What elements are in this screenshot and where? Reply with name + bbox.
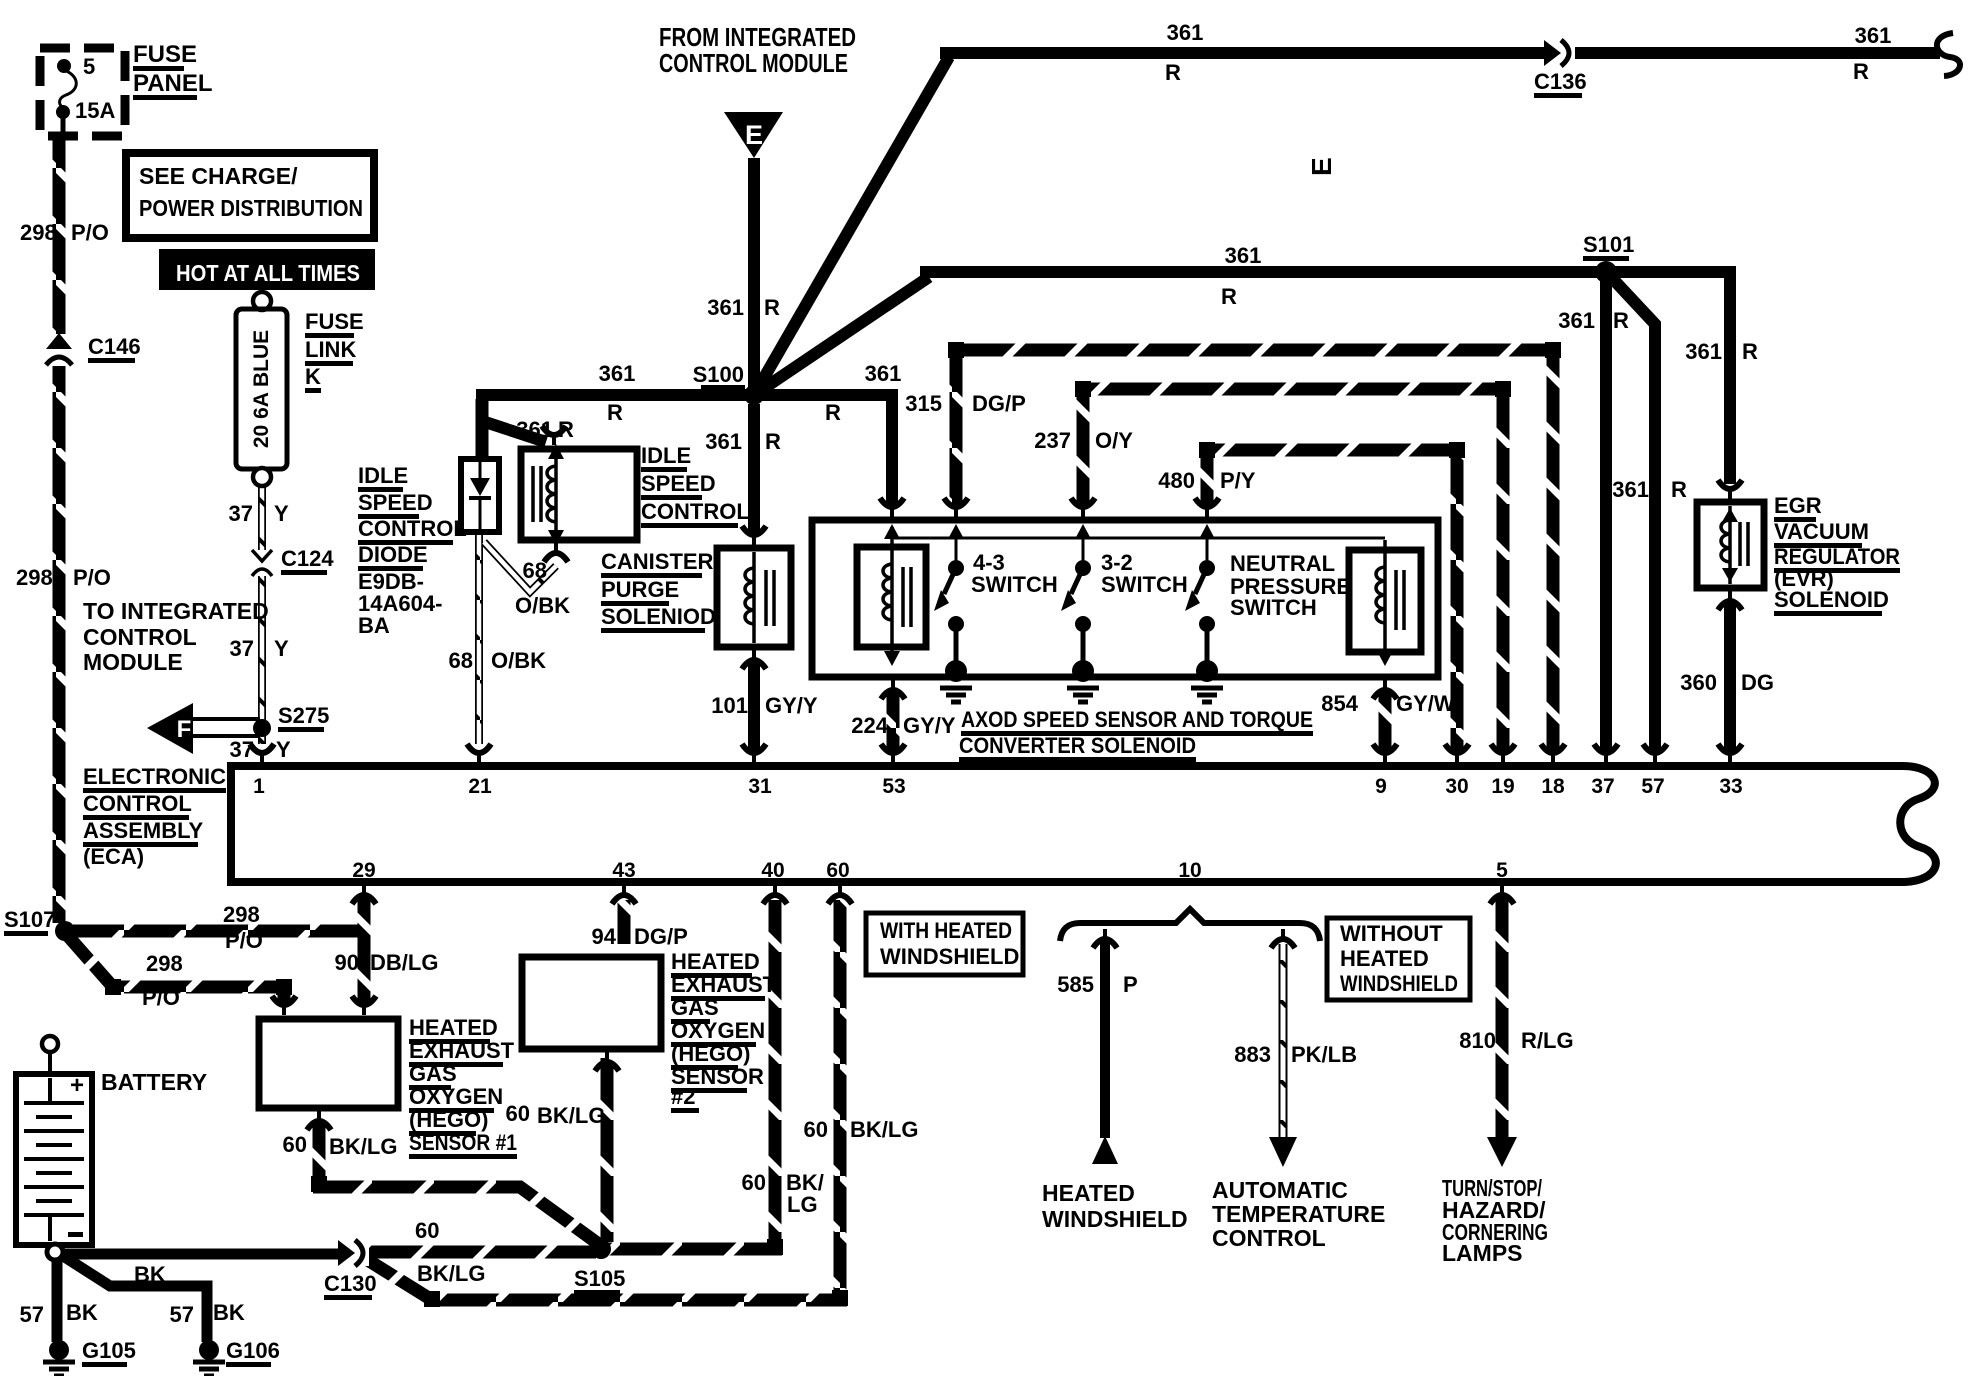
svg-text:PANEL: PANEL — [133, 70, 213, 97]
svg-text:R: R — [1613, 308, 1629, 333]
svg-text:R: R — [1165, 60, 1181, 85]
svg-text:S101: S101 — [1583, 232, 1634, 257]
svg-text:SEE CHARGE/: SEE CHARGE/ — [139, 163, 298, 189]
svg-text:9: 9 — [1375, 775, 1387, 798]
svg-text:19: 19 — [1491, 775, 1514, 798]
svg-text:90: 90 — [335, 950, 359, 975]
svg-text:ASSEMBLY: ASSEMBLY — [83, 818, 204, 843]
svg-text:CONTROL MODULE: CONTROL MODULE — [659, 48, 848, 78]
svg-text:P/O: P/O — [71, 220, 109, 245]
svg-text:21: 21 — [468, 775, 492, 798]
svg-text:G105: G105 — [82, 1338, 136, 1363]
svg-text:AXOD SPEED SENSOR AND TORQUE: AXOD SPEED SENSOR AND TORQUE — [961, 707, 1313, 732]
svg-text:R/LG: R/LG — [1521, 1028, 1574, 1053]
svg-text:224: 224 — [851, 713, 888, 738]
svg-text:FUSE: FUSE — [133, 41, 197, 68]
svg-text:(ECA): (ECA) — [83, 844, 144, 869]
svg-text:WITH HEATED: WITH HEATED — [880, 918, 1012, 943]
svg-text:237: 237 — [1034, 428, 1071, 453]
svg-text:101: 101 — [711, 693, 748, 718]
svg-text:MODULE: MODULE — [83, 649, 183, 675]
svg-text:BK/LG: BK/LG — [537, 1103, 605, 1128]
svg-text:SWITCH: SWITCH — [971, 572, 1058, 597]
svg-text:GAS: GAS — [409, 1061, 457, 1086]
svg-text:5: 5 — [83, 54, 95, 79]
svg-text:57: 57 — [170, 1302, 194, 1327]
svg-text:P/O: P/O — [225, 928, 263, 953]
svg-text:S105: S105 — [574, 1266, 625, 1291]
svg-text:GY/W: GY/W — [1396, 691, 1455, 716]
svg-text:EXHAUST: EXHAUST — [671, 972, 777, 997]
svg-text:R: R — [1671, 477, 1687, 502]
svg-text:IDLE: IDLE — [358, 463, 408, 488]
svg-text:HOT AT ALL TIMES: HOT AT ALL TIMES — [176, 260, 360, 286]
svg-text:37: 37 — [230, 737, 254, 762]
svg-text:Y: Y — [274, 501, 289, 526]
svg-text:VACUUM: VACUUM — [1774, 519, 1869, 544]
svg-text:BK/LG: BK/LG — [417, 1261, 485, 1286]
svg-text:IDLE: IDLE — [641, 443, 691, 468]
svg-text:R: R — [1221, 284, 1237, 309]
svg-text:585: 585 — [1057, 972, 1094, 997]
svg-text:R: R — [1853, 59, 1869, 84]
svg-text:10: 10 — [1178, 859, 1201, 882]
svg-text:TEMPERATURE: TEMPERATURE — [1212, 1201, 1385, 1227]
svg-text:57: 57 — [1641, 775, 1664, 798]
svg-text:298: 298 — [223, 902, 260, 927]
svg-text:854: 854 — [1321, 691, 1358, 716]
svg-text:810: 810 — [1459, 1028, 1496, 1053]
svg-text:361: 361 — [865, 361, 902, 386]
svg-text:Y: Y — [276, 737, 291, 762]
svg-text:LINK: LINK — [305, 337, 356, 362]
svg-text:361: 361 — [1855, 23, 1892, 48]
svg-text:DIODE: DIODE — [358, 542, 428, 567]
svg-text:LG: LG — [787, 1192, 818, 1217]
svg-text:18: 18 — [1541, 775, 1565, 798]
svg-text:DG/P: DG/P — [972, 391, 1026, 416]
svg-text:P/Y: P/Y — [1220, 468, 1256, 493]
svg-text:33: 33 — [1719, 775, 1742, 798]
svg-text:C124: C124 — [281, 546, 334, 571]
svg-text:HEATED: HEATED — [1340, 946, 1429, 971]
svg-text:POWER DISTRIBUTION: POWER DISTRIBUTION — [139, 195, 363, 221]
svg-text:P: P — [1123, 972, 1138, 997]
svg-text:E: E — [745, 120, 763, 150]
svg-text:P/O: P/O — [73, 565, 111, 590]
svg-text:37: 37 — [229, 501, 253, 526]
svg-text:361: 361 — [599, 361, 636, 386]
svg-text:CONTROL: CONTROL — [358, 516, 467, 541]
svg-text:R: R — [825, 400, 841, 425]
svg-text:R: R — [764, 295, 780, 320]
svg-text:GY/Y: GY/Y — [765, 693, 818, 718]
svg-text:ELECTRONIC: ELECTRONIC — [83, 764, 226, 789]
svg-text:68: 68 — [523, 558, 547, 583]
svg-text:BK/LG: BK/LG — [850, 1117, 918, 1142]
svg-text:AUTOMATIC: AUTOMATIC — [1212, 1177, 1348, 1203]
svg-text:60: 60 — [415, 1218, 439, 1243]
svg-text:C130: C130 — [324, 1271, 377, 1296]
svg-text:EGR: EGR — [1774, 493, 1822, 518]
svg-text:FUSE: FUSE — [305, 309, 364, 334]
svg-text:360: 360 — [1680, 670, 1717, 695]
svg-text:BK/LG: BK/LG — [329, 1134, 397, 1159]
svg-text:+: + — [70, 1072, 84, 1099]
svg-text:60: 60 — [804, 1117, 828, 1142]
svg-text:298: 298 — [16, 565, 53, 590]
svg-text:37: 37 — [1591, 775, 1614, 798]
svg-text:E: E — [1306, 157, 1337, 176]
svg-text:LAMPS: LAMPS — [1442, 1240, 1523, 1266]
svg-text:361: 361 — [705, 429, 742, 454]
svg-text:SWITCH: SWITCH — [1101, 572, 1188, 597]
svg-text:PURGE: PURGE — [601, 577, 679, 602]
svg-text:R: R — [607, 400, 623, 425]
svg-text:GY/Y: GY/Y — [903, 713, 956, 738]
svg-text:C136: C136 — [1534, 69, 1587, 94]
svg-text:S107: S107 — [4, 907, 55, 932]
svg-text:BK: BK — [66, 1300, 98, 1325]
svg-text:CONVERTER SOLENOID: CONVERTER SOLENOID — [959, 733, 1196, 758]
svg-text:315: 315 — [905, 391, 942, 416]
svg-text:SPEED: SPEED — [641, 471, 716, 496]
svg-text:SWITCH: SWITCH — [1230, 595, 1317, 620]
svg-text:HEATED: HEATED — [671, 949, 760, 974]
svg-text:DG/P: DG/P — [634, 924, 688, 949]
svg-text:43: 43 — [612, 859, 635, 882]
svg-text:K: K — [305, 364, 321, 389]
svg-text:O/Y: O/Y — [1095, 428, 1133, 453]
svg-text:5: 5 — [1496, 859, 1508, 882]
svg-text:TO INTEGRATED: TO INTEGRATED — [83, 598, 269, 624]
svg-text:OXYGEN: OXYGEN — [671, 1018, 765, 1043]
svg-text:SOLENIOD: SOLENIOD — [601, 604, 716, 629]
svg-text:CONTROL: CONTROL — [1212, 1225, 1326, 1251]
svg-text:361: 361 — [1558, 308, 1595, 333]
svg-text:SENSOR #1: SENSOR #1 — [409, 1130, 517, 1155]
svg-text:883: 883 — [1234, 1042, 1271, 1067]
svg-text:(HEGO): (HEGO) — [671, 1041, 750, 1066]
svg-text:WINDSHIELD: WINDSHIELD — [880, 944, 1019, 969]
svg-text:31: 31 — [748, 775, 772, 798]
svg-text:WINDSHIELD: WINDSHIELD — [1042, 1206, 1188, 1232]
svg-text:40: 40 — [761, 859, 784, 882]
svg-text:SPEED: SPEED — [358, 490, 433, 515]
svg-text:361: 361 — [707, 295, 744, 320]
svg-text:R: R — [765, 429, 781, 454]
svg-text:G106: G106 — [226, 1338, 280, 1363]
svg-text:CONTROL: CONTROL — [641, 499, 750, 524]
svg-text:DG: DG — [1741, 670, 1774, 695]
svg-text:R: R — [1742, 339, 1758, 364]
svg-text:94: 94 — [592, 924, 617, 949]
svg-text:BK: BK — [134, 1262, 166, 1287]
svg-text:HEATED: HEATED — [1042, 1180, 1135, 1206]
svg-text:60: 60 — [283, 1132, 307, 1157]
svg-text:EXHAUST: EXHAUST — [409, 1038, 515, 1063]
svg-text:298: 298 — [20, 220, 57, 245]
svg-text:C146: C146 — [88, 334, 141, 359]
svg-text:37: 37 — [230, 636, 254, 661]
svg-text:BATTERY: BATTERY — [101, 1069, 207, 1095]
svg-text:68: 68 — [449, 648, 473, 673]
svg-text:S275: S275 — [278, 703, 329, 728]
svg-text:57: 57 — [20, 1302, 44, 1327]
svg-text:(HEGO): (HEGO) — [409, 1107, 488, 1132]
svg-text:HEATED: HEATED — [409, 1015, 498, 1040]
svg-text:53: 53 — [882, 775, 905, 798]
svg-text:60: 60 — [506, 1101, 530, 1126]
svg-text:F: F — [177, 716, 192, 743]
svg-text:1: 1 — [253, 775, 265, 798]
svg-text:SOLENOID: SOLENOID — [1774, 587, 1889, 612]
svg-text:S100: S100 — [693, 362, 744, 387]
svg-text:GAS: GAS — [671, 995, 719, 1020]
svg-text:29: 29 — [352, 859, 375, 882]
svg-text:O/BK: O/BK — [491, 648, 546, 673]
svg-text:361: 361 — [1612, 477, 1649, 502]
svg-text:30: 30 — [1445, 775, 1468, 798]
svg-text:15A: 15A — [75, 98, 115, 123]
svg-text:P/O: P/O — [142, 985, 180, 1010]
svg-text:NEUTRAL: NEUTRAL — [1230, 551, 1335, 576]
svg-text:PK/LB: PK/LB — [1291, 1042, 1357, 1067]
svg-text:60: 60 — [826, 859, 849, 882]
svg-text:361: 361 — [1225, 243, 1262, 268]
svg-text:O/BK: O/BK — [515, 593, 570, 618]
svg-text:361: 361 — [1685, 339, 1722, 364]
svg-text:#2: #2 — [671, 1084, 695, 1109]
svg-text:CONTROL: CONTROL — [83, 624, 197, 650]
svg-text:BA: BA — [358, 613, 390, 638]
svg-text:CANISTER: CANISTER — [601, 549, 714, 574]
svg-text:480: 480 — [1158, 468, 1195, 493]
svg-text:361: 361 — [1167, 20, 1204, 45]
svg-text:20 6A BLUE: 20 6A BLUE — [250, 330, 273, 448]
svg-text:60: 60 — [742, 1170, 766, 1195]
svg-text:WINDSHIELD: WINDSHIELD — [1340, 971, 1458, 996]
svg-text:Y: Y — [274, 636, 289, 661]
svg-text:CONTROL: CONTROL — [83, 791, 192, 816]
svg-text:298: 298 — [146, 951, 183, 976]
svg-text:WITHOUT: WITHOUT — [1340, 921, 1443, 946]
svg-text:DB/LG: DB/LG — [370, 950, 438, 975]
svg-text:OXYGEN: OXYGEN — [409, 1084, 503, 1109]
svg-text:BK: BK — [213, 1300, 245, 1325]
